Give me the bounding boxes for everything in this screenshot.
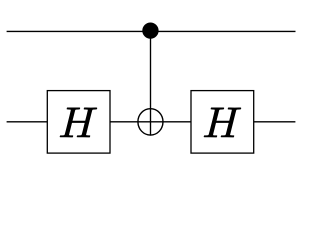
gate label H (left, Computer Modern italic) [60,107,98,137]
wire: vertical control line from control dot to target [150,31,152,136]
wire: bottom qubit line, right segment [253,121,295,123]
CNOT target circle (xor) on bottom wire [138,109,163,135]
gate box H (right) [191,91,254,154]
gate label H (right, Computer Modern italic) [204,107,242,137]
wire: top qubit line [7,30,296,32]
wire: bottom qubit line, left segment [7,121,48,123]
wire: bottom qubit line, middle segment (through CNOT target) [109,121,191,123]
gate box H (left) [47,91,110,154]
control dot (filled) on top wire [142,23,158,39]
